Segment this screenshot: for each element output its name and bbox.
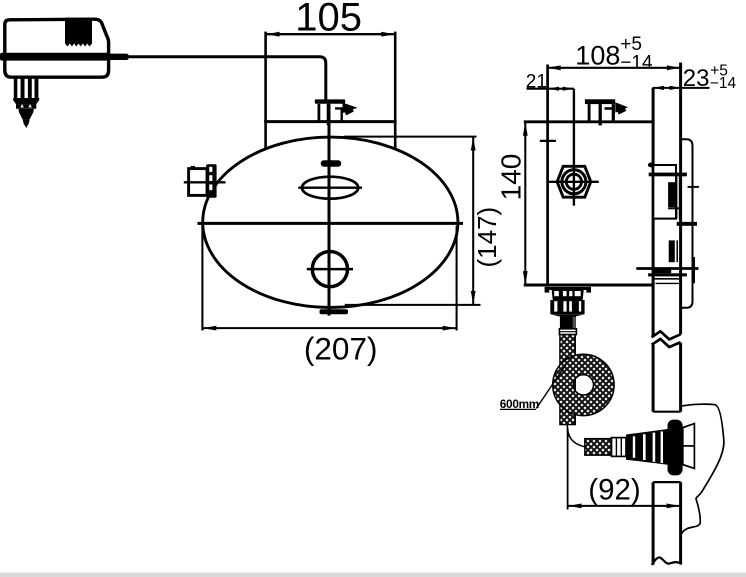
- wall right face: [679, 63, 682, 335]
- power inlet plug fitting front: [315, 99, 345, 103]
- adapter middle band: [0, 53, 110, 61]
- sensor window ellipse: [302, 177, 358, 199]
- cord wire: [129, 57, 326, 100]
- wall break zigzag: [652, 331, 681, 339]
- upper mounting clip: [648, 163, 654, 168]
- 600mm leader: [536, 365, 566, 409]
- plug taper: [18, 109, 34, 120]
- power adapter body: [5, 19, 109, 77]
- plug shoulder: [13, 98, 39, 104]
- side body bottom edge + 140 extension: [524, 283, 654, 286]
- braided hose vertical: [560, 335, 575, 425]
- wall left face: [652, 88, 655, 337]
- dim (147) extension lines: [344, 136, 477, 138]
- svg-text:21: 21: [526, 72, 547, 93]
- bottom gray strip: [0, 573, 746, 577]
- horizontal braided hose: [585, 439, 612, 456]
- power plug fitting side: [585, 99, 615, 104]
- adapter label patch: [65, 18, 92, 47]
- bottom tab: [320, 309, 349, 314]
- mounting box front left edge: [264, 32, 267, 149]
- dim 108 line: [547, 67, 681, 69]
- hose curve to elbow: [567, 425, 585, 447]
- svg-text:140: 140: [495, 154, 526, 201]
- dim 21 line: [527, 88, 575, 90]
- wall connector ribbed cone: [626, 429, 668, 465]
- lower mounting clip: [669, 240, 675, 262]
- oval vertical centerline: [328, 104, 331, 316]
- plug direction arrow front: [343, 103, 358, 114]
- svg-text:108: 108: [575, 41, 620, 71]
- svg-text:(207): (207): [304, 331, 378, 367]
- oval horizontal centerline: [198, 222, 464, 225]
- wall flange disc: [668, 420, 683, 476]
- hose nut: [612, 438, 627, 457]
- plug direction arrow side: [615, 102, 628, 112]
- mounting box front right edge: [394, 32, 397, 149]
- sensor mark tick: [540, 140, 556, 142]
- outlet lower block: [560, 316, 576, 329]
- outlet white collar: [559, 329, 576, 335]
- dim (207) extension lines: [201, 225, 203, 331]
- dim (92) extension: [567, 428, 569, 510]
- plug tip: [23, 120, 30, 128]
- adapter prongs: [14, 77, 17, 98]
- side body front edge + 108 extension: [546, 65, 549, 286]
- svg-text:−14: −14: [620, 53, 653, 74]
- dim (207) line: [202, 327, 456, 329]
- mounting plate outline: [681, 139, 693, 308]
- svg-text:(92): (92): [588, 474, 640, 507]
- dimension 105 line (box top edge): [266, 33, 396, 35]
- wall bottom break wave: [652, 557, 682, 565]
- plug block: [16, 104, 36, 109]
- hose loop donut: [553, 354, 614, 415]
- inlet fitting vertical centerline: [573, 89, 575, 206]
- dim 140 line: [524, 122, 526, 285]
- water inlet fitting nipple: [206, 164, 216, 198]
- outlet ribbed nut: [550, 300, 584, 314]
- outlet upper nut: [552, 290, 584, 300]
- trumpet flange behind wall: [683, 424, 695, 469]
- front oval cover: [203, 137, 458, 307]
- hex inlet fitting: [557, 166, 591, 197]
- dim 23 line: [652, 87, 709, 89]
- cord connector: [107, 54, 129, 60]
- svg-text:−14: −14: [710, 75, 737, 92]
- dim (147) line: [472, 137, 474, 305]
- freehand break boundary: [681, 404, 724, 536]
- outlet flange bar: [545, 287, 591, 290]
- water inlet fitting left: body: [189, 169, 207, 196]
- water inlet centerline: [184, 181, 226, 183]
- side body top edge + 140 extension: [524, 120, 654, 123]
- svg-text:23: 23: [683, 65, 710, 92]
- mounting box bottom line: [264, 120, 396, 123]
- wall recess hole lines: [653, 411, 681, 413]
- dim (92) line: [568, 505, 681, 507]
- svg-text:(147): (147): [472, 207, 502, 268]
- screw head: [312, 252, 347, 287]
- logo blob: [321, 160, 341, 167]
